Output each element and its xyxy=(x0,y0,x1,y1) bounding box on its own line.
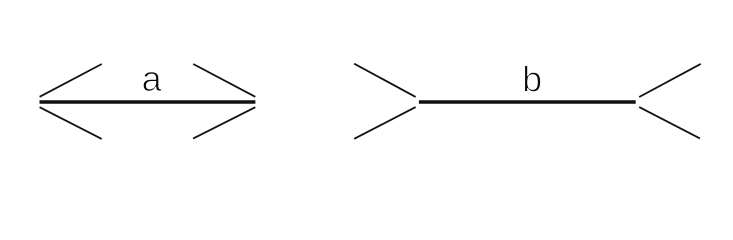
figure b: left lower fin xyxy=(354,107,415,139)
figure b: right lower fin xyxy=(639,107,700,138)
figure a: right upper fin xyxy=(193,64,255,97)
figure a: left upper fin xyxy=(40,64,102,97)
figure b: right upper fin xyxy=(639,64,701,97)
svg-text:b: b xyxy=(522,59,542,100)
svg-text:a: a xyxy=(142,58,163,99)
figure a: shaft line xyxy=(40,100,256,103)
figure b: left upper fin xyxy=(354,64,415,97)
figure a: left lower fin xyxy=(40,107,102,139)
figure a: right lower fin xyxy=(193,107,255,138)
figure b: shaft line xyxy=(419,100,636,103)
